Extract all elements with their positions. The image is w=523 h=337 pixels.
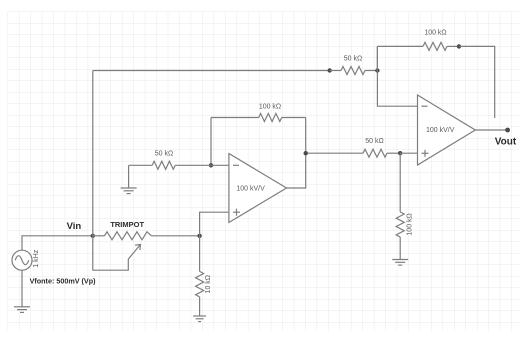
svg-text:50 kΩ: 50 kΩ — [365, 138, 383, 145]
node U1 output — [304, 151, 308, 155]
label R2 100 kΩ — [424, 30, 446, 37]
op-amp U1 — [229, 154, 287, 223]
wire node up to R2 feedback — [376, 46, 378, 70]
label 1 kHz — [33, 249, 40, 267]
ground (below V1) — [14, 307, 30, 313]
wire R6 to ground — [128, 165, 130, 188]
svg-text:50 kΩ: 50 kΩ — [155, 150, 173, 157]
svg-text:Vout: Vout — [495, 137, 517, 148]
svg-text:100 kV/V: 100 kV/V — [236, 186, 265, 193]
U2 plus pin — [422, 150, 429, 157]
svg-text:100 kΩ: 100 kΩ — [406, 213, 413, 235]
wire V1 bottom to ground — [21, 270, 23, 307]
trimpot RV1 body — [93, 232, 200, 240]
ground (below R7) — [193, 316, 206, 322]
wire node to U1 plus input — [200, 212, 229, 236]
node Vin — [91, 234, 95, 238]
label TRIMPOT — [110, 220, 144, 229]
node Vout — [505, 128, 510, 133]
label R3 50 kΩ — [365, 138, 383, 145]
resistor R4 100 kΩ (to ground) — [396, 212, 404, 237]
U2 minus pin — [422, 105, 428, 107]
label U1 gain 100 kV/V — [236, 186, 265, 193]
resistor R6 50 kΩ (U1 inverting to ground) — [129, 161, 211, 169]
label R6 50 kΩ — [155, 150, 173, 157]
resistor R5 100 kΩ (U1 feedback) — [211, 114, 306, 122]
wire U1 output up to node — [287, 118, 306, 189]
label R4 100 kΩ — [406, 213, 413, 235]
U1 plus pin — [233, 209, 240, 216]
op-amp U2 — [418, 95, 476, 165]
wire Vin node up to top rail — [92, 71, 94, 236]
ground (U1 inverting network) — [121, 188, 137, 194]
wire U2 output to Vout — [475, 129, 507, 131]
resistor R3 50 kΩ (interstage) — [363, 149, 400, 157]
wire node to U2 inverting input — [377, 46, 417, 106]
svg-text:100 kΩ: 100 kΩ — [424, 30, 446, 37]
resistor R7 10 kΩ (to ground) — [196, 271, 204, 297]
wire top rail to R1 — [93, 70, 330, 72]
resistor R1 50 kΩ (top rail) — [330, 67, 378, 75]
svg-text:10 kΩ: 10 kΩ — [205, 275, 212, 293]
junction dot at R1 left — [328, 68, 332, 72]
node at U2 non-inverting branch — [398, 151, 402, 155]
wire node to U2 plus input — [400, 152, 417, 154]
label R1 50 kΩ — [344, 55, 362, 62]
label R5 100 kΩ — [259, 104, 281, 111]
trimpot RV1 wiper arrow — [128, 245, 140, 260]
resistor R2 100 kΩ (U2 feedback) — [377, 42, 459, 50]
ground (below R4) — [392, 260, 408, 266]
wire R4 to ground — [399, 237, 401, 260]
wire U1 output node to R3 — [306, 152, 363, 154]
wire node down to R7 — [199, 236, 201, 272]
wire R2 to output drop — [459, 46, 495, 118]
wire U1 minus node up — [210, 118, 212, 166]
label Vfonte: 500mV (Vp) — [30, 277, 97, 286]
voltage source V1 (sine, 1 kHz) — [12, 250, 32, 270]
wire node down to R4 — [399, 153, 401, 212]
wire V1 top to node Vin — [22, 236, 93, 250]
label Vout — [495, 137, 517, 148]
node trimpot right — [197, 234, 201, 238]
svg-text:50 kΩ: 50 kΩ — [344, 55, 362, 62]
wire node to U1 minus input — [211, 164, 229, 166]
wire R7 to ground — [199, 297, 201, 316]
label R7 10 kΩ — [205, 275, 212, 293]
label U2 gain 100 kV/V — [426, 127, 455, 134]
label Vin — [67, 221, 82, 232]
node at R1 right / U2 inverting branch — [375, 68, 379, 72]
svg-text:100 kV/V: 100 kV/V — [426, 127, 455, 134]
junction dot at R2 right — [457, 44, 461, 48]
svg-text:100 kΩ: 100 kΩ — [259, 104, 281, 111]
svg-text:1 kHz: 1 kHz — [33, 249, 40, 267]
node U1 inverting input — [209, 163, 213, 167]
svg-text:Vfonte: 500mV (Vp): Vfonte: 500mV (Vp) — [30, 277, 97, 286]
wire wiper to Vin node — [93, 236, 129, 270]
svg-text:Vin: Vin — [67, 221, 82, 232]
svg-text:TRIMPOT: TRIMPOT — [110, 220, 144, 229]
U1 minus pin — [233, 164, 239, 166]
